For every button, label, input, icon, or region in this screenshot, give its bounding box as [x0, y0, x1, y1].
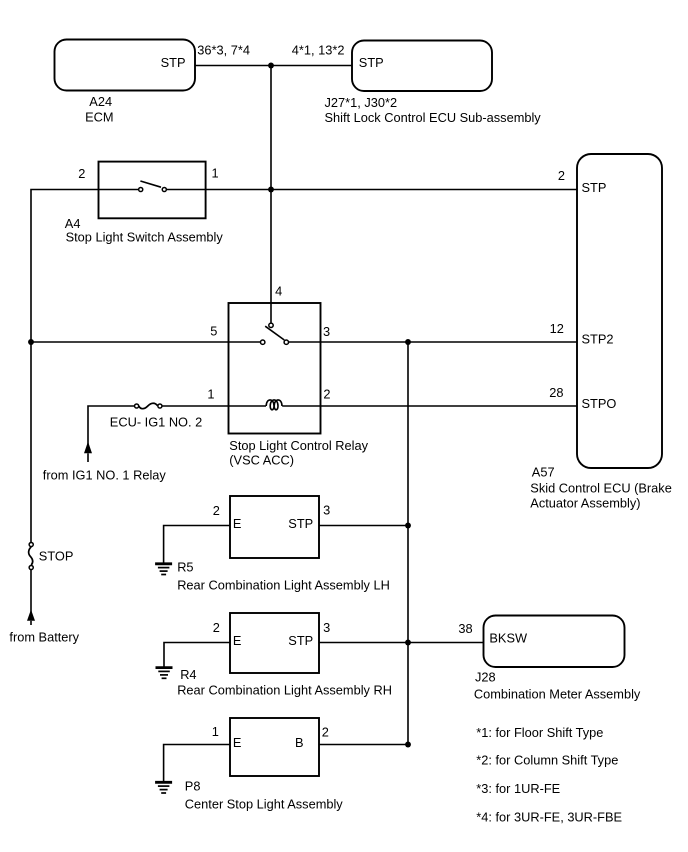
- fuse STOP top contact: [29, 542, 33, 546]
- rear combination light RH R4 box: [230, 613, 319, 673]
- svg-text:STP: STP: [582, 180, 607, 195]
- svg-text:from Battery: from Battery: [9, 630, 79, 645]
- junction node R5 STP at bus: [405, 523, 411, 529]
- svg-text:E: E: [233, 633, 242, 648]
- fuse STOP bottom contact: [29, 565, 33, 569]
- center stop light P8 box: [230, 718, 319, 776]
- wire R5 E to ground: [164, 526, 230, 564]
- svg-text:Actuator Assembly): Actuator Assembly): [530, 496, 640, 511]
- fuse ECU-IG1 NO.2 right contact: [158, 404, 162, 408]
- combination meter J28 connector box: [484, 616, 625, 668]
- junction node left vertical at relay pin 5 wire: [28, 339, 34, 345]
- svg-text:STP: STP: [288, 516, 313, 531]
- svg-text:12: 12: [550, 321, 564, 336]
- svg-text:A57: A57: [532, 465, 555, 480]
- skid control ECU A57 connector box: [577, 154, 662, 468]
- svg-text:4*1, 13*2: 4*1, 13*2: [292, 43, 345, 58]
- svg-text:*1: for Floor Shift Type: *1: for Floor Shift Type: [476, 725, 603, 740]
- svg-text:ECU- IG1 NO. 2: ECU- IG1 NO. 2: [110, 415, 202, 430]
- svg-text:Shift Lock Control ECU Sub-ass: Shift Lock Control ECU Sub-assembly: [325, 110, 542, 125]
- svg-text:3: 3: [323, 502, 330, 517]
- svg-text:STP: STP: [161, 55, 186, 70]
- wire lights bus vertical: [407, 342, 409, 745]
- wire R5 STP to bus: [319, 525, 408, 527]
- junction node on STP wire: [268, 63, 274, 69]
- wire vertical from STP node down to relay pin 4: [270, 66, 272, 323]
- stop light control relay box: [229, 303, 321, 434]
- arrow from IG1 NO.1 relay: [84, 442, 92, 454]
- junction node bus end at P8 B: [405, 742, 411, 748]
- svg-text:R4: R4: [180, 667, 196, 682]
- switch A4 blade: [140, 181, 161, 187]
- relay contact common (pin 4): [269, 323, 273, 327]
- svg-text:E: E: [233, 516, 242, 531]
- wire relay coil row from fuse corner: [88, 406, 134, 447]
- svg-text:2: 2: [558, 168, 565, 183]
- arrow from Battery: [27, 610, 35, 621]
- svg-text:B: B: [295, 735, 304, 750]
- svg-text:E: E: [233, 735, 242, 750]
- svg-text:1: 1: [212, 724, 219, 739]
- svg-text:3: 3: [323, 620, 330, 635]
- fuse ECU-IG1 NO.2 left contact: [135, 404, 139, 408]
- svg-text:2: 2: [213, 620, 220, 635]
- svg-text:Skid Control ECU (Brake: Skid Control ECU (Brake: [530, 481, 672, 496]
- svg-text:ECM: ECM: [85, 109, 113, 124]
- svg-text:*4: for 3UR-FE, 3UR-FBE: *4: for 3UR-FE, 3UR-FBE: [476, 810, 622, 825]
- svg-text:2: 2: [322, 724, 329, 739]
- svg-text:2: 2: [78, 166, 85, 181]
- svg-text:P8: P8: [185, 779, 201, 794]
- svg-text:3: 3: [323, 324, 330, 339]
- junction node at stop light switch wire: [268, 187, 274, 193]
- wire ECM STP to Shift Lock ECU: [195, 65, 352, 67]
- fuse ECU-IG1 NO.2 element: [139, 403, 158, 408]
- svg-text:Stop Light Control Relay: Stop Light Control Relay: [229, 438, 368, 453]
- switch A4 left contact: [139, 187, 143, 191]
- wire relay pin 3 to skid control ECU STP2: [289, 341, 577, 343]
- junction node R4 STP at bus: [405, 640, 411, 646]
- relay contact left (pin 5): [261, 340, 265, 344]
- svg-text:*2: for Column Shift Type: *2: for Column Shift Type: [476, 753, 618, 768]
- svg-text:J28: J28: [475, 670, 496, 685]
- wire relay pin 5 row left: [31, 341, 260, 343]
- wire left of A4 switch: [31, 190, 138, 543]
- wire P8 B to bus end: [319, 744, 408, 746]
- svg-text:5: 5: [210, 323, 217, 338]
- svg-text:28: 28: [549, 385, 563, 400]
- svg-text:BKSW: BKSW: [489, 630, 528, 645]
- svg-text:STP: STP: [359, 55, 384, 70]
- fuse STOP element: [29, 547, 33, 565]
- svg-text:1: 1: [212, 166, 219, 181]
- svg-text:STP2: STP2: [582, 331, 614, 346]
- svg-text:J27*1, J30*2: J27*1, J30*2: [325, 95, 398, 110]
- junction node pin3 wire and lights bus: [405, 339, 411, 345]
- svg-text:Rear Combination Light Assembl: Rear Combination Light Assembly RH: [177, 683, 392, 698]
- svg-text:Combination Meter Assembly: Combination Meter Assembly: [474, 687, 641, 702]
- svg-text:Rear Combination Light Assembl: Rear Combination Light Assembly LH: [177, 577, 390, 592]
- wire P8 E to ground: [164, 745, 230, 783]
- svg-text:STP: STP: [288, 633, 313, 648]
- svg-text:Center Stop Light Assembly: Center Stop Light Assembly: [185, 797, 344, 812]
- svg-text:R5: R5: [177, 559, 193, 574]
- ground (P8): [155, 782, 172, 793]
- svg-text:(VSC ACC): (VSC ACC): [229, 453, 294, 468]
- svg-text:*3: for 1UR-FE: *3: for 1UR-FE: [476, 781, 560, 796]
- svg-text:STPO: STPO: [582, 396, 617, 411]
- Shift Lock Control ECU connector box J27/J30: [352, 41, 492, 92]
- svg-text:1: 1: [207, 386, 214, 401]
- wire from fuse to relay pin 1: [162, 405, 266, 407]
- wire bus to combination meter BKSW: [408, 642, 484, 644]
- svg-text:2: 2: [323, 387, 330, 402]
- svg-text:A24: A24: [89, 94, 112, 109]
- svg-text:2: 2: [213, 503, 220, 518]
- ground (R4): [156, 668, 173, 679]
- svg-text:38: 38: [458, 621, 472, 636]
- wire below STOP fuse: [30, 570, 32, 615]
- relay contact right (pin 3): [284, 340, 288, 344]
- rear combination light LH R5 box: [230, 496, 319, 558]
- relay coil L1: [266, 400, 282, 410]
- svg-text:STOP: STOP: [39, 549, 74, 564]
- wire from A4 pin 1 to skid control ECU STP: [167, 189, 577, 191]
- wire R4 STP to bus: [319, 642, 408, 644]
- svg-text:Stop Light Switch Assembly: Stop Light Switch Assembly: [66, 229, 224, 244]
- ground (R5): [155, 564, 172, 575]
- stop light switch A4 box: [99, 162, 206, 219]
- wire R4 E to ground: [164, 643, 230, 668]
- wire relay pin 2 to skid control ECU STPO: [282, 405, 577, 407]
- svg-text:4: 4: [275, 283, 282, 298]
- switch A4 right contact: [162, 187, 166, 191]
- svg-text:from IG1 NO. 1 Relay: from IG1 NO. 1 Relay: [43, 468, 167, 483]
- relay switch blade: [265, 326, 284, 340]
- svg-text:36*3, 7*4: 36*3, 7*4: [197, 43, 250, 58]
- ECM A24 connector box: [55, 40, 196, 91]
